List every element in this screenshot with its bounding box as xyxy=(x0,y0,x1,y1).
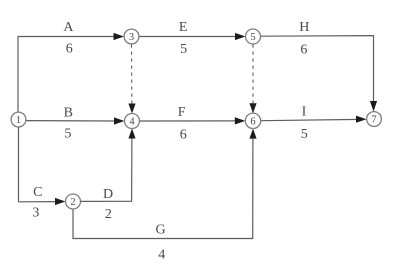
svg-text:1: 1 xyxy=(16,115,21,126)
svg-text:H: H xyxy=(299,20,309,35)
svg-text:6: 6 xyxy=(66,42,73,57)
svg-text:6: 6 xyxy=(250,117,255,128)
svg-text:C: C xyxy=(33,185,42,200)
svg-text:6: 6 xyxy=(300,43,307,58)
svg-text:5: 5 xyxy=(301,127,308,142)
svg-text:7: 7 xyxy=(371,115,376,126)
svg-text:I: I xyxy=(302,104,307,119)
svg-text:5: 5 xyxy=(250,32,255,43)
svg-text:3: 3 xyxy=(129,32,134,43)
svg-text:2: 2 xyxy=(70,197,75,208)
svg-text:G: G xyxy=(156,223,166,238)
svg-text:2: 2 xyxy=(105,207,112,222)
svg-text:D: D xyxy=(103,187,113,202)
svg-text:E: E xyxy=(179,20,188,35)
svg-text:5: 5 xyxy=(64,127,71,142)
svg-text:5: 5 xyxy=(180,42,187,57)
svg-text:B: B xyxy=(64,106,73,121)
svg-text:A: A xyxy=(63,20,74,35)
svg-text:6: 6 xyxy=(180,128,187,143)
svg-text:4: 4 xyxy=(158,248,165,263)
svg-text:F: F xyxy=(178,105,186,120)
svg-text:3: 3 xyxy=(32,206,39,221)
svg-text:4: 4 xyxy=(129,117,135,128)
